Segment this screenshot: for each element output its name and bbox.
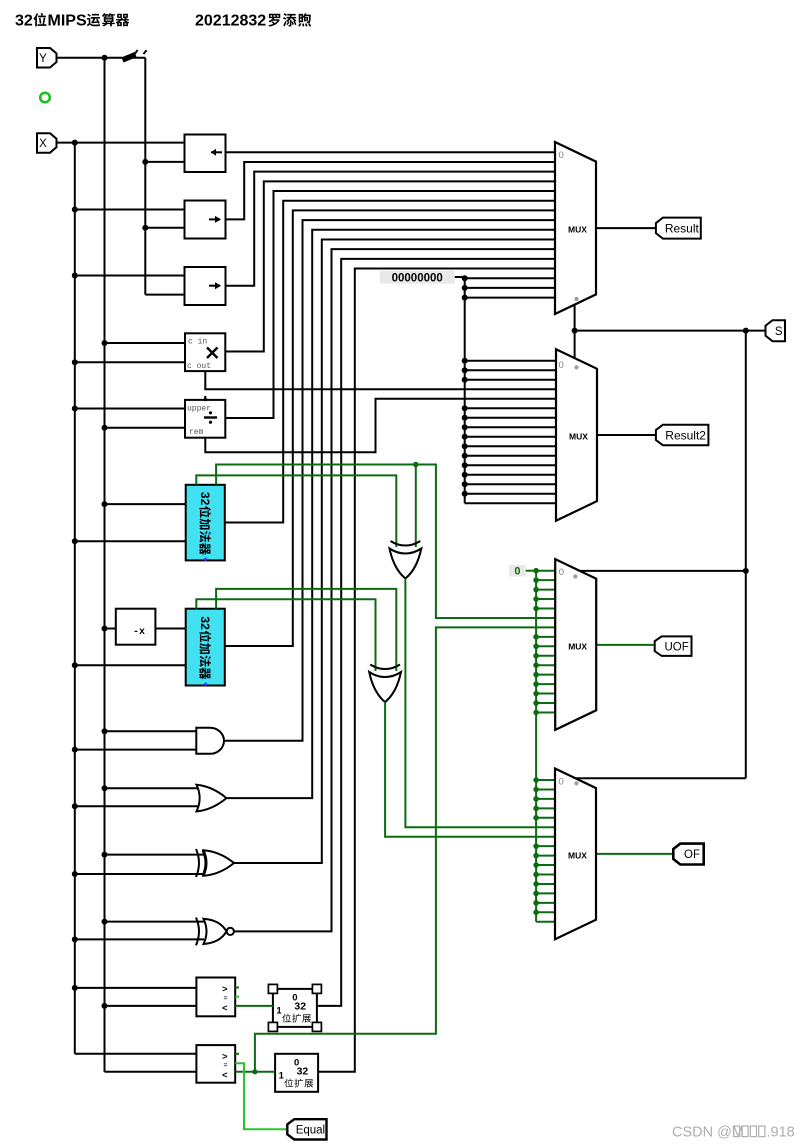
- wire select to MUX3: [580, 570, 746, 572]
- node green junction: [413, 462, 419, 468]
- node X bus junction: [72, 406, 78, 412]
- node X bus junction: [72, 985, 78, 991]
- svg-text:rem: rem: [189, 428, 204, 437]
- svg-text:>: >: [222, 984, 228, 995]
- node Y bus junction: [102, 626, 108, 632]
- svg-text:0: 0: [559, 567, 564, 578]
- wire comparator CMP2 eq to Equal pin: [235, 1063, 288, 1129]
- svg-text:32: 32: [15, 13, 33, 30]
- wire adder A2 carry-a to XOR-OV2 right: [216, 589, 396, 671]
- svg-text:MIPS: MIPS: [48, 13, 87, 30]
- node shift bus dot 1: [142, 159, 148, 165]
- svg-text:=: =: [224, 996, 228, 1003]
- svg-text:X: X: [39, 138, 47, 150]
- wire Y to multiplier: [105, 342, 186, 344]
- wire green zero to bus: [526, 570, 536, 572]
- shifter SRA: [185, 267, 226, 305]
- node X bus junction: [72, 273, 78, 279]
- wire X to adder1: [75, 540, 186, 542]
- wire adder A1 carry-b to XOR-OV1 left: [196, 475, 396, 547]
- wire adder A2 out to MUX1 in7: [225, 210, 555, 646]
- svg-text:32: 32: [294, 1000, 306, 1012]
- wire X to AND gate: [75, 749, 197, 751]
- node equality junction: [252, 1069, 257, 1074]
- node select junction at S branch: [743, 328, 749, 334]
- svg-text:00000000: 00000000: [392, 273, 443, 285]
- wire X to comparator1: [75, 987, 197, 989]
- OR gate G2: [197, 785, 227, 812]
- node Y bus junction: [102, 1003, 108, 1009]
- wire X to shifter3: [75, 275, 185, 277]
- node Y bus junction: [102, 785, 108, 791]
- wire Y to OR gate: [105, 787, 200, 789]
- svg-text:0: 0: [514, 565, 520, 577]
- XOR gate G3: [203, 850, 206, 876]
- wire X bus vertical x=75: [74, 143, 76, 1054]
- multiplexer MUX3 (UOF): [555, 559, 596, 730]
- node X bus junction: [72, 936, 78, 942]
- zero bus junctions and stubs: [462, 275, 468, 281]
- wire Y to AND gate: [105, 730, 198, 732]
- svg-text:<: <: [222, 1070, 228, 1081]
- node Y bus junction: [102, 728, 108, 734]
- input pin X: [37, 133, 57, 153]
- shifter SLL: [185, 135, 226, 173]
- adder A2 32-bit: [186, 609, 225, 686]
- wire Y to XNOR gate: [105, 921, 205, 923]
- node X bus junction: [72, 871, 78, 877]
- output pin UOF: [655, 636, 692, 656]
- wire Y to XOR gate: [105, 854, 205, 856]
- wire multiplier out to MUX1 in4: [225, 181, 555, 351]
- wire to shifter2 shift input: [145, 227, 184, 229]
- multiplexer MUX1 (Result): [555, 142, 596, 314]
- output pin Result: [656, 218, 701, 239]
- svg-text:Y: Y: [39, 53, 47, 65]
- adder A1 anchor dot: [204, 558, 207, 561]
- wire Y to comparator1: [105, 1005, 197, 1007]
- node X bus junction: [72, 747, 78, 753]
- node X bus junction: [72, 803, 78, 809]
- wire comparator CMP2 lt to extender EXT2: [235, 1071, 275, 1073]
- output pin OF: [673, 844, 703, 865]
- divider upper pin stub: [204, 396, 206, 400]
- node X bus junction: [72, 359, 78, 365]
- selection handles EXT1: [268, 984, 277, 993]
- svg-text:c out: c out: [187, 362, 211, 371]
- wire X to XOR gate: [75, 873, 204, 875]
- wire X to shifter2: [75, 209, 185, 211]
- multiplier U-MUL: [185, 333, 225, 371]
- wire X pin to shifter1: [57, 142, 185, 144]
- wire adder A2 carry-b to XOR-OV2 left: [196, 599, 375, 671]
- svg-text:20212832: 20212832: [195, 13, 266, 30]
- comparator CMP2: [196, 1045, 235, 1083]
- wire adder A1 carry-a net (to XOR-OV1 right and MUX3 in6): [216, 465, 555, 618]
- svg-text:Result2: Result2: [665, 428, 706, 442]
- svg-text:-x: -x: [133, 627, 145, 638]
- bit extender EXT2: [275, 1054, 318, 1092]
- svg-text:upper: upper: [187, 405, 211, 414]
- node X bus junction: [72, 538, 78, 544]
- wire OR out to MUX1 in9: [227, 230, 556, 798]
- green bus junctions and stubs MUX3: [533, 568, 539, 574]
- svg-text:S: S: [775, 326, 783, 338]
- svg-text:MUX: MUX: [568, 225, 587, 235]
- wire XOR-OV1 out to MUX4 in6: [405, 579, 555, 828]
- wire divider out to MUX1 in5: [225, 191, 555, 418]
- node shift bus dot 2: [142, 225, 148, 231]
- XNOR gate G4: [196, 918, 199, 946]
- svg-text:0: 0: [559, 360, 564, 371]
- svg-text:.918: .918: [767, 1124, 795, 1140]
- wire select bus vertical x=746: [745, 331, 747, 779]
- node Y bus junction: [102, 501, 108, 507]
- node Y bus junction: [102, 852, 108, 858]
- splitter SP1: [123, 55, 136, 61]
- node select junction at MUX1: [572, 328, 578, 334]
- wire negator out to adder A2: [155, 628, 185, 630]
- wire Y pin to splitter: [57, 57, 146, 59]
- input pin Y: [37, 48, 57, 68]
- node Y bus junction: [102, 919, 108, 925]
- svg-text:MUX: MUX: [569, 432, 588, 442]
- wire select to MUX4: [576, 777, 746, 779]
- wire shift-amount bus vertical x=145: [144, 58, 146, 295]
- wire multiplier c-out to MUX2 in4: [205, 371, 556, 389]
- wire green zero bus vertical x=536: [535, 571, 537, 922]
- wire adder A1 out to MUX1 in6: [225, 201, 555, 523]
- wire shifter SLL out to MUX1 in1: [226, 151, 556, 153]
- wire extender EXT2 out to MUX1 in13: [318, 269, 555, 1072]
- node select junction MUX3: [743, 568, 749, 574]
- wire XNOR out to MUX1 in11: [234, 249, 555, 931]
- negator -x: [116, 609, 156, 645]
- wire X to XNOR gate: [75, 938, 204, 940]
- wire Y to divider: [105, 427, 186, 429]
- wire extender EXT1 out to MUX1 in12: [317, 259, 555, 1006]
- shifter SRL: [185, 201, 226, 239]
- svg-text:OF: OF: [684, 849, 700, 861]
- node X bus junction: [72, 662, 78, 668]
- wire comparator CMP1 lt to extender EXT1: [235, 1005, 273, 1007]
- output pin Equal: [287, 1119, 326, 1139]
- XOR gate OV1: [391, 541, 421, 546]
- svg-text:<: <: [222, 1003, 228, 1014]
- svg-text:1: 1: [276, 1005, 282, 1016]
- svg-text:>: >: [222, 1052, 228, 1063]
- wire AND out to MUX1 in8: [224, 220, 555, 741]
- green bus junctions and stubs MUX4: [533, 777, 539, 783]
- wire shifter SRL out to MUX1 in2: [226, 162, 556, 219]
- node Y bus junction: [102, 55, 108, 61]
- wire shifter SRA out to MUX1 in3: [226, 172, 556, 286]
- AND gate G1: [196, 728, 224, 754]
- wire Y to negator: [105, 628, 116, 630]
- wire to shifter3 shift input: [145, 294, 184, 296]
- output pin Result2: [656, 425, 709, 446]
- divider U-DIV: [185, 400, 225, 438]
- wire MUX4 output to OF: [596, 853, 674, 855]
- svg-text:c in: c in: [188, 338, 207, 347]
- LED indicator: [40, 93, 50, 103]
- constant 00000000: [380, 271, 455, 284]
- svg-text:MUX: MUX: [568, 850, 587, 860]
- svg-text:32: 32: [198, 492, 212, 506]
- wire select to S pin: [575, 330, 767, 332]
- wire to shifter1 shift input: [145, 161, 184, 163]
- wire divider rem to MUX2 in5: [205, 399, 556, 453]
- wire XOR out to MUX1 in10: [234, 239, 555, 863]
- wire MUX1 output to Result: [596, 227, 657, 229]
- wire X to multiplier: [75, 361, 185, 363]
- wire X to OR gate: [75, 805, 199, 807]
- node X bus junction: [72, 207, 78, 213]
- comparator CMP1 gt stub: [235, 987, 239, 989]
- wire MUX2 output to Result2: [597, 434, 657, 436]
- comparator CMP1: [196, 978, 235, 1017]
- wire constant to zero bus: [455, 277, 465, 503]
- svg-text:MUX: MUX: [568, 641, 587, 651]
- wire X to adder2: [75, 664, 186, 666]
- output pin S: [766, 320, 786, 341]
- svg-text:1: 1: [279, 1070, 285, 1081]
- wire branch to XOR-OV1 right input: [415, 465, 417, 548]
- svg-text:32: 32: [297, 1065, 309, 1077]
- wire MUX1 select: [574, 305, 576, 358]
- adder A2 anchor dot: [204, 683, 207, 686]
- multiplexer MUX4 (OF): [555, 769, 596, 940]
- comparator CMP2 gt stub: [235, 1053, 239, 1055]
- svg-text:32: 32: [198, 616, 212, 630]
- wire XOR-OV2 out to MUX4 in7: [385, 702, 555, 837]
- comparator CMP1 eq stub: [235, 996, 239, 998]
- wire MUX3 output to UOF: [596, 644, 656, 646]
- svg-text:0: 0: [559, 777, 564, 788]
- constant 0 (green): [509, 565, 526, 577]
- bit extender EXT1 (selected): [273, 989, 317, 1027]
- wire Y to comparator2: [105, 1071, 197, 1073]
- wire Y bus vertical x=104.5: [104, 58, 106, 1072]
- adder A1 32-bit: [186, 485, 225, 561]
- svg-text:0: 0: [559, 150, 564, 161]
- node X bus junction: [72, 140, 78, 146]
- wire X to divider: [75, 408, 185, 410]
- node Y bus junction: [102, 425, 108, 431]
- svg-text:=: =: [224, 1063, 228, 1070]
- svg-text:Result: Result: [665, 221, 700, 235]
- svg-text:UOF: UOF: [664, 641, 688, 653]
- XOR gate OV2: [370, 665, 400, 670]
- wire Y to adder1: [105, 503, 186, 505]
- wire zero bus to MUX2 in16: [465, 502, 556, 504]
- svg-text:Equal: Equal: [296, 1124, 325, 1136]
- node Y bus junction: [102, 340, 108, 346]
- multiplexer MUX2 (Result2): [556, 349, 597, 521]
- wire X to comparator2: [75, 1053, 197, 1055]
- wire equality net to MUX3 in7: [255, 627, 555, 1071]
